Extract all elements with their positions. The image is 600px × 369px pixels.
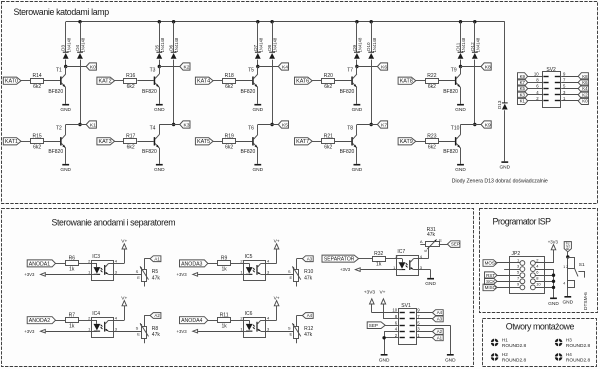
svg-text:A2: A2 <box>437 329 443 334</box>
flag KAT6 <box>295 77 313 84</box>
resistor R20 6k2 <box>322 79 335 84</box>
trimmer R5 47k <box>142 270 147 282</box>
svg-text:BF820: BF820 <box>241 89 256 95</box>
wire top V+ rail <box>66 21 505 23</box>
diode D7 1N4148 <box>255 52 261 53</box>
svg-text:R32: R32 <box>374 251 383 257</box>
svg-text:47k: 47k <box>152 275 161 281</box>
svg-text:ROUND2.8: ROUND2.8 <box>502 343 527 349</box>
svg-text:DTSM-6: DTSM-6 <box>583 292 589 310</box>
svg-text:KAT1: KAT1 <box>5 139 18 145</box>
svg-text:Diody Zenera D13 dobrać doświa: Diody Zenera D13 dobrać doświadczalnie <box>452 179 548 185</box>
wire R11 to IC6 pin2 <box>231 320 244 322</box>
wire RST to S1 <box>567 252 569 259</box>
svg-text:D8: D8 <box>267 44 272 50</box>
pin JP2-6 <box>531 273 536 278</box>
svg-text:R15: R15 <box>33 134 42 140</box>
svg-text:S: S <box>136 269 139 274</box>
pin SV2-9 K8 <box>561 76 578 78</box>
svg-text:6k2: 6k2 <box>225 144 233 150</box>
svg-text:6k2: 6k2 <box>428 84 436 90</box>
transistor T9 BF820 <box>455 77 457 85</box>
svg-text:K7: K7 <box>381 122 387 128</box>
svg-text:1N4148: 1N4148 <box>66 37 71 52</box>
transistor T3 BF820 <box>154 77 156 85</box>
wire SV1 pin5 to GND <box>416 325 450 327</box>
flag K7 <box>377 121 387 128</box>
flag A1 <box>150 256 161 262</box>
pin SV2-2 K1 <box>528 100 543 102</box>
svg-text:H2: H2 <box>502 352 508 357</box>
svg-text:K2: K2 <box>184 64 190 70</box>
wire RST to JP2-5 <box>497 275 520 277</box>
svg-text:6k2: 6k2 <box>324 84 332 90</box>
flag KAT0 <box>3 77 21 84</box>
svg-text:BF820: BF820 <box>48 89 63 95</box>
wire SV1 pin4 to GND <box>384 331 398 333</box>
svg-text:1N4148: 1N4148 <box>174 37 179 52</box>
wire R22 to T9 base <box>439 80 455 82</box>
pin JP2-10 <box>531 285 536 290</box>
svg-text:D11: D11 <box>456 42 461 51</box>
stub R8 bottom <box>144 339 146 344</box>
svg-text:V+: V+ <box>121 239 127 245</box>
junction gnd rail 8 <box>552 280 555 283</box>
svg-text:6k2: 6k2 <box>33 144 41 150</box>
svg-text:A3: A3 <box>437 316 443 321</box>
svg-text:1N4148: 1N4148 <box>160 37 165 52</box>
resistor R7 1k <box>66 318 79 323</box>
wire +3V3 to IC6 pin1 <box>198 331 244 333</box>
svg-text:1k: 1k <box>221 267 227 273</box>
svg-text:4: 4 <box>563 282 565 286</box>
supply V+ arrow for IC5 <box>274 244 279 249</box>
svg-text:K6: K6 <box>381 64 387 70</box>
resistor R11 1k <box>218 318 231 323</box>
flag SEP right <box>447 241 460 248</box>
wire R20 to T7 base <box>335 80 351 82</box>
flag K1 <box>518 97 528 104</box>
ground T1 GND <box>62 104 69 106</box>
wire +3V3 to IC7 pin1 <box>361 269 397 271</box>
wire T4 emitter to GND <box>159 148 161 164</box>
svg-text:6k2: 6k2 <box>428 144 436 150</box>
svg-text:1N4148: 1N4148 <box>358 37 363 52</box>
wire +3V3 to IC4 pin1 <box>46 331 92 333</box>
optocoupler IC7 <box>397 256 419 276</box>
svg-text:K5: K5 <box>520 86 526 91</box>
svg-text:GND: GND <box>499 165 510 171</box>
wire A2 to R8 <box>144 315 150 317</box>
supply V+ arrow for IC6 <box>274 301 279 306</box>
svg-text:K0: K0 <box>582 98 588 103</box>
svg-text:SEP: SEP <box>369 323 378 328</box>
wire KAT6 to R20 <box>312 80 321 82</box>
diode D9 1N4148 <box>354 52 360 53</box>
diode D12 1N4148 <box>472 52 478 53</box>
svg-text:R16: R16 <box>126 73 135 79</box>
svg-text:GND: GND <box>425 281 436 287</box>
svg-text:S1: S1 <box>579 262 585 268</box>
trimmer R8 47k <box>142 327 147 339</box>
transistor T2 BF820 <box>60 137 62 145</box>
svg-text:R22: R22 <box>427 73 436 79</box>
svg-text:+3V3: +3V3 <box>548 240 559 245</box>
svg-text:6k2: 6k2 <box>225 84 233 90</box>
svg-text:6k2: 6k2 <box>127 144 135 150</box>
wire R31 E terminal to SEP <box>439 244 448 246</box>
svg-text:E: E <box>137 332 140 337</box>
flag K3 <box>518 91 528 98</box>
ground T4 GND <box>156 164 163 166</box>
wire +3V3 to IC3 pin1 <box>46 274 92 276</box>
svg-text:BF820: BF820 <box>142 89 157 95</box>
svg-text:T1: T1 <box>56 68 62 74</box>
svg-text:T10: T10 <box>451 125 460 131</box>
flag SCK <box>485 278 498 285</box>
junction rail/line10 <box>473 20 476 23</box>
ground JP2 GND <box>550 298 557 300</box>
ground T3 GND <box>156 104 163 106</box>
svg-text:ROUND2.8: ROUND2.8 <box>502 358 527 364</box>
svg-text:1k: 1k <box>69 323 75 329</box>
flag A4 <box>416 312 432 314</box>
junction gnd rail 10 <box>552 286 555 289</box>
svg-text:V+: V+ <box>121 295 127 301</box>
svg-text:A1: A1 <box>437 335 443 340</box>
svg-text:10: 10 <box>392 308 397 313</box>
node K9 <box>473 123 476 126</box>
svg-text:A1: A1 <box>154 256 160 261</box>
flag K1 <box>86 121 96 128</box>
svg-text:MISO: MISO <box>485 285 497 290</box>
junction rail/line7 <box>355 20 358 23</box>
diode D8 1N4148 <box>269 52 275 53</box>
svg-text:R20: R20 <box>324 73 333 79</box>
pin JP2-8 <box>531 279 536 284</box>
wire R14 to T1 base <box>44 80 60 82</box>
flag K6 <box>377 63 387 70</box>
transistor T10 BF820 <box>455 137 457 145</box>
svg-text:BF820: BF820 <box>340 149 355 155</box>
wire S1 to GND <box>567 269 569 296</box>
wire IC4 pin4 to V+ <box>114 320 125 322</box>
svg-text:E: E <box>439 238 442 243</box>
node K8 <box>459 65 462 68</box>
ground T8 GND <box>354 164 361 166</box>
svg-text:KAT3: KAT3 <box>99 139 112 145</box>
resistor R6 1k <box>66 261 79 266</box>
wire IC3 pin3 to R5 <box>114 274 142 276</box>
frame: Otwory montazowe box <box>483 319 597 367</box>
svg-text:GND: GND <box>379 357 390 363</box>
svg-text:BF820: BF820 <box>443 89 458 95</box>
svg-text:GND: GND <box>60 167 71 173</box>
svg-text:BF820: BF820 <box>340 89 355 95</box>
svg-text:K3: K3 <box>184 122 190 128</box>
flag A1 <box>416 337 432 339</box>
flag KAT5 <box>195 138 213 145</box>
svg-text:R18: R18 <box>225 73 234 79</box>
resistor R23 6k2 <box>426 139 439 144</box>
wire T10 emitter to GND <box>460 148 462 164</box>
svg-text:T5: T5 <box>248 68 254 74</box>
node K0 <box>64 65 67 68</box>
svg-text:ANODA4: ANODA4 <box>181 318 202 324</box>
flag KAT9 <box>398 138 416 145</box>
flag K6 <box>578 79 588 86</box>
svg-text:BF820: BF820 <box>241 149 256 155</box>
ground IC7 GND <box>427 278 434 280</box>
svg-text:RST: RST <box>486 273 495 278</box>
resistor R15 6k2 <box>31 139 44 144</box>
flag K4 <box>278 63 288 70</box>
wire JP2-6 to gnd rail <box>535 275 553 277</box>
wire T2 emitter to GND <box>65 148 67 164</box>
flag ANODA1 <box>27 260 55 267</box>
flag MISO <box>483 284 497 291</box>
wire SEPARATOR to R32 <box>359 258 372 260</box>
wire D4 line <box>80 22 82 53</box>
ground T6 GND <box>254 164 261 166</box>
wire IC4 pin3 to R8 <box>114 331 142 333</box>
trimmer R10 47k <box>294 270 299 282</box>
junction rail/line2 <box>78 20 81 23</box>
svg-text:KAT8: KAT8 <box>400 79 413 85</box>
wire R32 to IC7 pin2 <box>385 258 396 260</box>
wire MISO to JP2-9 <box>497 287 520 289</box>
svg-text:6k2: 6k2 <box>127 84 135 90</box>
svg-text:R19: R19 <box>225 134 234 140</box>
flag A3 <box>302 256 313 262</box>
mounting hole H3 <box>555 339 563 347</box>
resistor R9 1k <box>218 261 231 266</box>
pin JP2-9 <box>520 285 525 290</box>
svg-text:T6: T6 <box>248 125 254 131</box>
flag ANODA3 <box>180 260 208 267</box>
wire KAT9 to R23 <box>416 141 425 143</box>
pin JP2-5 <box>520 273 525 278</box>
svg-text:IC6: IC6 <box>245 311 253 317</box>
svg-text:SEPARATOR: SEPARATOR <box>324 256 355 262</box>
svg-text:V+: V+ <box>274 295 280 301</box>
svg-text:Sterowanie katodami lamp: Sterowanie katodami lamp <box>14 7 110 17</box>
wire D3 anode line <box>65 22 67 53</box>
svg-text:V+: V+ <box>379 290 385 296</box>
svg-text:KAT5: KAT5 <box>197 139 210 145</box>
flag RST vertical <box>564 242 571 252</box>
svg-text:10: 10 <box>536 282 541 287</box>
resistor R16 6k2 <box>124 79 137 84</box>
svg-text:K4: K4 <box>582 86 588 91</box>
frame: Sterowanie katodami lamp box <box>2 2 598 204</box>
svg-text:GND: GND <box>562 299 573 305</box>
svg-text:6k2: 6k2 <box>33 84 41 90</box>
wire R19 to T6 base <box>236 141 252 143</box>
svg-text:R9: R9 <box>221 256 228 262</box>
svg-text:GND: GND <box>352 167 363 173</box>
junction rail/line4 <box>172 20 175 23</box>
svg-text:ANODA3: ANODA3 <box>181 261 202 267</box>
svg-text:D4: D4 <box>75 44 80 50</box>
svg-text:K8: K8 <box>582 74 588 79</box>
flag KAT2 <box>97 77 115 84</box>
flag K9 <box>518 73 528 80</box>
svg-text:A: A <box>420 239 423 244</box>
svg-text:1N4148: 1N4148 <box>475 37 480 52</box>
svg-text:47k: 47k <box>152 332 161 338</box>
junction gnd rail 6 <box>552 274 555 277</box>
wire KAT1 to R15 <box>21 141 30 143</box>
junction rail/line9 <box>459 20 462 23</box>
svg-text:+3V3: +3V3 <box>364 290 376 296</box>
svg-text:Programator ISP: Programator ISP <box>493 217 552 227</box>
svg-text:H3: H3 <box>566 337 572 342</box>
svg-text:1N4148: 1N4148 <box>461 37 466 52</box>
pin SV2-3 K2 <box>561 94 578 96</box>
svg-text:V+: V+ <box>274 239 280 245</box>
wire D12 line <box>474 22 476 53</box>
junction SV1 pin2/pin4 gnd <box>382 336 385 339</box>
svg-text:R5: R5 <box>152 269 159 275</box>
svg-text:D9: D9 <box>352 44 357 50</box>
wire ANODA1 to R6 <box>56 263 66 265</box>
stub JP2-3 <box>504 269 520 271</box>
wire T1 emitter to GND <box>65 87 67 104</box>
optocoupler IC4 <box>92 318 114 338</box>
wire KAT7 to R21 <box>312 141 321 143</box>
junction S1 top <box>566 255 569 258</box>
svg-text:1k: 1k <box>69 267 75 273</box>
svg-text:K9: K9 <box>520 74 526 79</box>
svg-text:R11: R11 <box>220 312 229 318</box>
diode D5 1N4148 <box>156 52 162 53</box>
svg-text:IC3: IC3 <box>92 254 100 260</box>
wire ANODA4 to R11 <box>208 320 218 322</box>
svg-text:T4: T4 <box>150 125 156 131</box>
wire KAT4 to R18 <box>213 80 222 82</box>
wire A1 to R5 <box>144 258 150 260</box>
svg-text:1N4148: 1N4148 <box>81 37 86 52</box>
pin JP2-3 <box>520 267 525 272</box>
wire D10 line <box>371 22 373 53</box>
diode D6 1N4148 <box>171 52 177 53</box>
wire A4 to R12 <box>297 315 303 317</box>
svg-text:GND: GND <box>154 167 165 173</box>
wire KAT5 to R19 <box>213 141 222 143</box>
pin JP2-4 <box>531 267 536 272</box>
svg-text:S: S <box>423 249 428 252</box>
wire +3V3 to JP2-2 <box>553 250 555 263</box>
svg-text:ROUND2.8: ROUND2.8 <box>566 358 591 364</box>
svg-text:R7: R7 <box>69 312 76 318</box>
pin JP2-7 <box>520 279 525 284</box>
svg-text:T7: T7 <box>347 68 353 74</box>
wire KAT2 to R16 <box>115 80 124 82</box>
flag K4 <box>578 85 588 92</box>
flag K0 <box>86 63 96 70</box>
svg-text:KAT2: KAT2 <box>99 79 112 85</box>
node K7 <box>370 123 373 126</box>
flag KAT4 <box>195 77 213 84</box>
wire R21 to T8 base <box>335 141 351 143</box>
svg-text:A3: A3 <box>307 256 313 261</box>
optocoupler IC6 <box>244 318 266 338</box>
stub R31 A terminal <box>420 244 425 246</box>
supply V+ arrow for IC4 <box>122 301 127 306</box>
node K5 <box>270 123 273 126</box>
stub R5 bottom <box>144 282 146 287</box>
svg-text:D6: D6 <box>169 44 174 50</box>
resistor R21 6k2 <box>322 139 335 144</box>
svg-text:H4: H4 <box>566 352 572 357</box>
resistor R17 6k2 <box>124 139 137 144</box>
svg-text:1N4148: 1N4148 <box>258 37 263 52</box>
resistor R19 6k2 <box>223 139 236 144</box>
flag K2 <box>180 63 190 70</box>
svg-text:GND: GND <box>455 167 466 173</box>
node K6 <box>355 65 358 68</box>
svg-text:K2: K2 <box>582 92 588 97</box>
wire IC6 pin3 to R12 <box>266 331 294 333</box>
svg-text:R6: R6 <box>69 256 76 262</box>
frame: Programator ISP box <box>480 209 598 313</box>
ground T5 GND <box>254 104 261 106</box>
pin SV2-7 K6 <box>561 82 578 84</box>
wire IC3 pin4 to V+ <box>114 263 125 265</box>
svg-text:1 2: 1 2 <box>563 265 568 269</box>
svg-text:RST: RST <box>565 241 570 250</box>
svg-text:SEP: SEP <box>451 242 460 247</box>
svg-text:1k: 1k <box>376 262 382 268</box>
svg-text:IC7: IC7 <box>397 249 405 255</box>
wire +3V3 to SV1 pin10 <box>371 304 373 313</box>
svg-text:E: E <box>290 332 293 337</box>
ground SV1 right GND <box>447 354 454 356</box>
svg-text:K9: K9 <box>485 122 491 128</box>
svg-text:KAT4: KAT4 <box>197 79 210 85</box>
svg-text:H1: H1 <box>502 337 508 342</box>
ground T10 GND <box>457 164 464 166</box>
mounting hole H1 <box>491 339 499 347</box>
mounting hole H4 <box>555 353 563 361</box>
junction rail/line3 <box>158 20 161 23</box>
svg-text:S: S <box>136 326 139 331</box>
svg-text:R23: R23 <box>427 134 436 140</box>
wire D11 anode line <box>460 22 462 53</box>
svg-text:KAT7: KAT7 <box>296 139 309 145</box>
svg-text:E: E <box>290 275 293 280</box>
wire R15 to T2 base <box>44 141 60 143</box>
wire T6 emitter to GND <box>257 148 259 164</box>
mounting hole H2 <box>491 353 499 361</box>
diode D3 1N4148 <box>63 52 69 53</box>
svg-text:+3V3: +3V3 <box>177 329 188 334</box>
svg-text:T2: T2 <box>56 125 62 131</box>
resistor R18 6k2 <box>223 79 236 84</box>
switch S1 DTSM-6 <box>568 258 575 269</box>
diode D10 1N4148 <box>368 52 374 53</box>
resistor R14 6k2 <box>31 79 44 84</box>
svg-text:KAT9: KAT9 <box>400 139 413 145</box>
resistor R22 6k2 <box>426 79 439 84</box>
wire JP2-10 to gnd rail <box>535 287 553 289</box>
svg-text:R10: R10 <box>304 269 313 275</box>
svg-text:+3V3: +3V3 <box>177 272 188 277</box>
wire IC5 pin4 to V+ <box>266 263 277 265</box>
flag KAT8 <box>398 77 416 84</box>
wire SCK to JP2-7 <box>497 281 520 283</box>
